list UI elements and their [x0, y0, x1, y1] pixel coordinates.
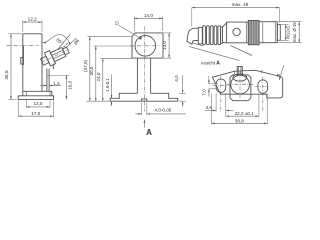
rib 2 — [207, 26, 210, 45]
svg-text:14,0: 14,0 — [144, 13, 154, 18]
svg-text:max. 49: max. 49 — [232, 2, 249, 7]
M12x1 ext lines — [278, 23, 289, 25]
svg-text:M12x1: M12x1 — [286, 25, 291, 39]
svg-text:Ansicht A: Ansicht A — [201, 61, 221, 67]
svg-text:16,0: 16,0 — [67, 80, 72, 89]
coupling nut — [259, 22, 277, 43]
dia arrowhead 1 — [63, 45, 66, 48]
cone transition — [223, 22, 228, 43]
circle centerline horizontal — [130, 45, 161, 47]
dim 7,0 arrow upper — [208, 76, 210, 84]
footnote dot — [139, 37, 142, 40]
nut inner line — [262, 22, 264, 43]
wedge diagonal short — [193, 43, 204, 46]
slab A inner vertical right — [49, 91, 51, 96]
collar corner edge — [52, 64, 54, 70]
svg-text:13,0: 13,0 — [162, 41, 167, 50]
flange left steps — [110, 93, 137, 101]
connector body inner lines — [52, 50, 63, 55]
vertical centerline — [144, 27, 146, 112]
A view arrow — [143, 120, 145, 128]
plate bend tick right — [261, 70, 263, 73]
rib 3 — [210, 26, 213, 45]
dim max.49 line — [192, 7, 280, 9]
svg-text:4,0-0,05: 4,0-0,05 — [155, 108, 172, 113]
bracket column outline — [23, 34, 42, 96]
slab A inner vertical left — [25, 91, 27, 96]
rib 4 — [214, 26, 217, 45]
max49 ext left — [191, 8, 193, 27]
dim (37,0) line — [89, 37, 91, 102]
svg-text:17,0: 17,0 — [31, 111, 41, 116]
svg-text:24,0: 24,0 — [96, 72, 101, 81]
block centerline horizontal — [227, 83, 253, 85]
nut inner line right — [274, 22, 276, 43]
knurl hatch — [250, 20, 257, 44]
svg-text:22,0 ±0,1: 22,0 ±0,1 — [235, 111, 255, 116]
dim 16,0 line — [66, 75, 68, 99]
svg-text:A: A — [146, 128, 152, 137]
sensor circle — [231, 75, 250, 94]
flange right steps — [151, 93, 178, 101]
dim 13,5 ext lines — [25, 100, 27, 108]
dim 17,0 ext lines — [17, 100, 19, 117]
knurl ring — [248, 20, 259, 44]
oval collar — [233, 74, 247, 81]
dim 17,0 line — [18, 115, 53, 117]
dim 1,4 — [40, 85, 47, 87]
connector tip — [62, 47, 69, 55]
dia arrowhead 2 — [65, 42, 68, 45]
dim 13,0 ext lines — [164, 32, 172, 34]
svg-text:12,2: 12,2 — [28, 17, 38, 22]
dim 36,5 line — [10, 34, 12, 100]
slot hole left — [216, 79, 226, 93]
svg-text:(37,0): (37,0) — [83, 60, 88, 72]
dim 12,2 line — [23, 21, 42, 23]
notch dim arrows — [135, 113, 141, 115]
svg-text:1,4: 1,4 — [53, 81, 60, 86]
ordinate ext line y=44.3 — [94, 45, 136, 47]
svg-text:1,5-0,1: 1,5-0,1 — [105, 78, 110, 92]
notch dim line under text — [153, 113, 186, 115]
svg-text:1): 1) — [115, 20, 120, 25]
notch dim ext lines — [141, 103, 143, 116]
bottom notch — [142, 99, 147, 101]
boot circle — [233, 28, 240, 35]
sensor block — [230, 75, 251, 101]
dim 7,0 ext lines — [209, 83, 218, 85]
rib 5 — [218, 26, 221, 45]
dim 13,5 line — [26, 106, 50, 108]
dim 30,8 line — [211, 122, 267, 124]
stub notch lines — [238, 66, 240, 74]
plate bend tick left — [234, 71, 236, 74]
column left-edge notch — [21, 58, 23, 65]
column left edge thick segment — [22, 46, 24, 65]
svg-text:max. Ø 15: max. Ø 15 — [292, 22, 297, 42]
dim 1,5-0,1 line upper — [111, 75, 113, 99]
slot hole right — [258, 80, 268, 94]
svg-text:13,5: 13,5 — [33, 101, 43, 106]
connector body — [50, 47, 65, 61]
boot block — [227, 22, 249, 43]
dim 14,0 line — [134, 17, 162, 19]
svg-text:30,8: 30,8 — [235, 119, 244, 124]
dim 4,6 arrows — [205, 110, 216, 112]
dim 14,0 ext lines — [133, 16, 135, 31]
svg-text:36,5: 36,5 — [4, 70, 9, 80]
svg-text:4,0: 4,0 — [174, 75, 179, 82]
angled connector barrel (65 deg) — [38, 43, 72, 69]
bracket plate outline — [212, 70, 282, 98]
slot L centerlines — [213, 85, 229, 87]
connector circle — [135, 36, 156, 57]
dim 7,0 arrow lower — [208, 89, 210, 97]
dia dim line 1 — [58, 34, 71, 49]
svg-text:65°: 65° — [55, 37, 64, 45]
ferrule — [198, 27, 202, 44]
ext lines below (slot edges) — [210, 94, 212, 124]
dim 12,2 extension lines — [22, 20, 24, 32]
connector collar — [44, 51, 55, 66]
dim 24,0 line — [102, 58, 104, 101]
max dia 15 dim line — [298, 22, 300, 43]
ordinate ext line y=36.7 — [88, 36, 133, 38]
dia dim line 2 — [66, 38, 77, 48]
wedge diagonal right — [231, 46, 253, 56]
boot separator — [245, 22, 247, 43]
R callout leader — [279, 65, 284, 80]
wedge diagonal 1 — [189, 46, 239, 60]
dim 30,5 line — [95, 46, 97, 101]
head rect with chamfer — [132, 33, 163, 58]
max49 ext right — [279, 8, 281, 23]
wall lines (1,4) — [46, 69, 48, 92]
elbow body — [187, 28, 198, 44]
max dia 15 ext lines — [279, 21, 302, 23]
end cap — [277, 24, 280, 40]
base bottom line (with left extension) — [110, 100, 178, 102]
svg-text:Ø6: Ø6 — [73, 38, 81, 46]
footnote leader — [119, 25, 140, 38]
slot R centerlines — [255, 86, 271, 88]
dim 16,0 ext line — [48, 74, 70, 76]
M12x1 dim line — [285, 24, 287, 40]
connector neck — [41, 56, 49, 65]
svg-text:7,0: 7,0 — [202, 89, 207, 96]
base slab A top — [23, 91, 52, 96]
svg-text:4,6: 4,6 — [206, 105, 213, 110]
dim 36,5 extension lines — [8, 33, 21, 35]
stub — [237, 66, 242, 75]
65 degree arc — [43, 35, 71, 46]
svg-text:R: R — [277, 73, 280, 78]
dim 13,0 line — [168, 33, 170, 58]
connector axis centerline — [41, 50, 69, 63]
dim 4,0 line — [182, 76, 184, 94]
svg-text:30,5: 30,5 — [89, 66, 94, 75]
column — [136, 58, 138, 93]
connector axis centerline horizontal — [7, 44, 39, 46]
ordinate ext line y=58.3 — [101, 57, 133, 59]
dim 22,0 line — [226, 115, 259, 117]
rib 1 — [203, 26, 206, 45]
base slab B — [18, 96, 53, 100]
dim 4,0 right ext lines — [179, 92, 186, 94]
dim 1,5-0,1 arrow lower — [111, 101, 113, 106]
block centerline vertical — [239, 72, 241, 99]
rib end ring — [221, 27, 223, 44]
